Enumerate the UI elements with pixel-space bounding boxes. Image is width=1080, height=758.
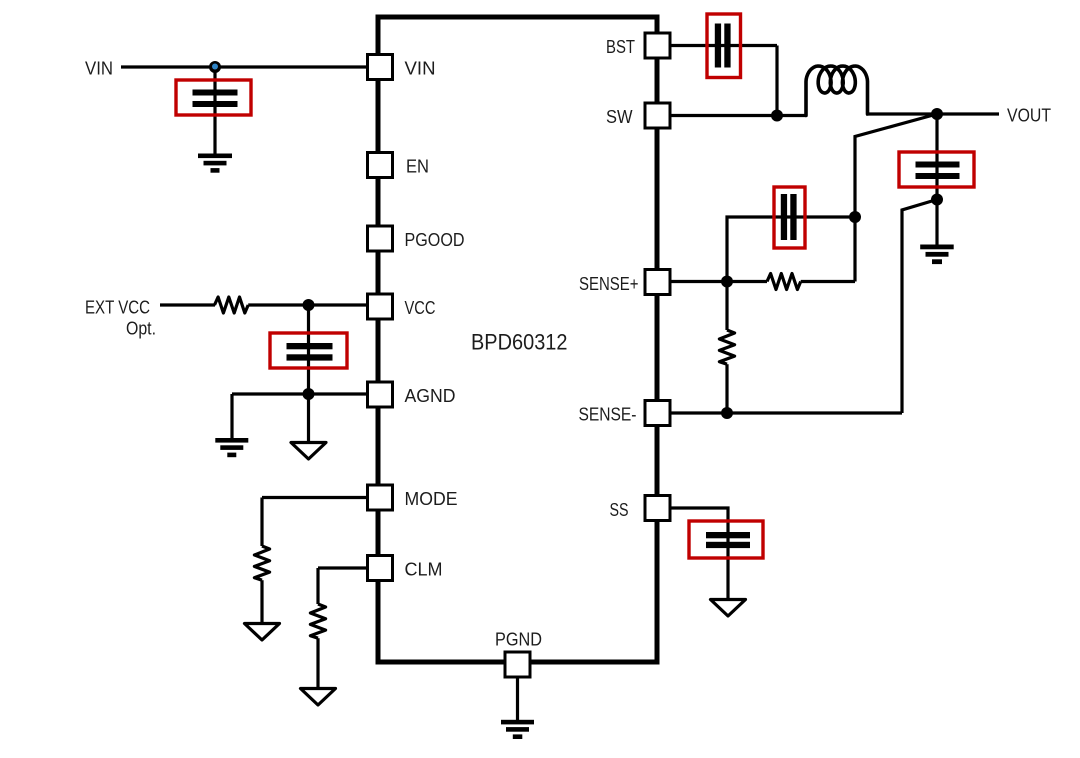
junction node AGND: [303, 388, 315, 400]
wire VIN node to capacitor C1: [213, 67, 216, 154]
junction node VCC: [303, 299, 315, 311]
wire SENSE+ node up to capacitor C5: [727, 217, 855, 282]
pin EN: [368, 153, 393, 178]
wire EXT VCC input to resistor R1: [160, 303, 215, 306]
wire MODE pin to resistor R2: [262, 498, 368, 547]
IC U1 BPD60312 body: [378, 17, 657, 662]
red highlight box around capacitor C4: [899, 152, 974, 187]
svg-text:EN: EN: [406, 155, 429, 176]
svg-text:PGOOD: PGOOD: [405, 229, 465, 250]
wire CLM pin to resistor R3: [318, 568, 368, 604]
ground (bar style) at AGND left: [215, 438, 248, 457]
resistor R2 (MODE pulldown): [254, 546, 269, 580]
pin SS: [645, 496, 670, 521]
capacitor C1 (VIN bypass) (horizontal plates): [193, 90, 238, 108]
junction node VOUT: [931, 108, 943, 120]
wire VCC node to capacitor C2: [307, 305, 310, 394]
wire SS pin to capacitor C6: [668, 508, 728, 600]
wire AGND node to triangle ground: [307, 394, 310, 443]
pin CLM: [368, 556, 393, 581]
capacitor C3 (bootstrap) (vertical plates): [715, 24, 731, 68]
pin SW: [645, 103, 670, 128]
svg-text:SENSE+: SENSE+: [579, 273, 639, 294]
ground (bar style) at output capacitor C4: [920, 245, 954, 265]
ground (open triangle) at SS capacitor C6: [711, 600, 746, 617]
wire VOUT node diagonal to sense network: [855, 114, 937, 282]
red highlight box around capacitor C6: [689, 521, 763, 558]
wire SENSE+ pin to resistor R4: [668, 280, 767, 283]
junction node SW: [771, 110, 783, 122]
capacitor C6 (soft-start) (horizontal plates): [706, 532, 750, 548]
wire output ground node to SENSE- return: [902, 200, 937, 414]
pin MODE: [368, 485, 393, 510]
pin SENSE+: [645, 270, 670, 295]
wire PGND pin to ground: [516, 676, 519, 720]
wire resistor R1 to VCC pin: [248, 303, 368, 306]
red highlight box around capacitor C1: [176, 80, 251, 115]
wire resistor R4 to vertical feed node: [801, 280, 855, 283]
svg-text:AGND: AGND: [405, 385, 456, 406]
svg-text:VOUT: VOUT: [1007, 104, 1051, 125]
resistor R4 (SENSE+ series): [767, 274, 801, 290]
wire BST pin to capacitor C3: [668, 44, 777, 47]
wire SENSE+ node to resistor R5: [725, 282, 728, 331]
capacitor C5 (sense filter) (vertical plates): [781, 194, 797, 240]
svg-text:EXT VCC: EXT VCC: [85, 296, 150, 317]
svg-text:VIN: VIN: [405, 57, 436, 78]
svg-text:PGND: PGND: [495, 628, 542, 649]
wire down to bar ground left of AGND: [230, 394, 233, 439]
svg-text:VIN: VIN: [85, 57, 113, 78]
pin PGOOD: [368, 226, 393, 251]
ground (open triangle) at AGND node: [291, 443, 326, 460]
junction node sense feed: [849, 211, 861, 223]
ground (bar style) at input capacitor C1: [198, 154, 232, 173]
blue marker on VIN input node: [212, 64, 218, 70]
wire VIN input to VIN pin: [121, 65, 368, 68]
svg-text:BST: BST: [606, 36, 635, 57]
capacitor C2 (VCC bypass) (horizontal plates): [287, 343, 333, 361]
wire VOUT node to capacitor C4: [935, 114, 938, 245]
wire resistor R2 to triangle ground: [260, 580, 263, 624]
resistor R3 (CLM pulldown): [310, 604, 325, 638]
svg-text:SENSE-: SENSE-: [579, 403, 637, 424]
wire SENSE- pin to return line: [668, 411, 902, 414]
red highlight box around capacitor C5: [774, 187, 805, 248]
wire resistor R3 to triangle ground: [316, 638, 319, 689]
inductor L1: [806, 66, 868, 116]
junction node VIN input: [209, 61, 221, 73]
svg-text:BPD60312: BPD60312: [471, 330, 568, 355]
svg-text:CLM: CLM: [405, 558, 443, 579]
wire SW pin to inductor L1: [668, 114, 806, 117]
pin VCC: [368, 294, 393, 319]
pin BST: [645, 33, 670, 58]
junction node SENSE-: [721, 407, 733, 419]
svg-text:Opt.: Opt.: [126, 318, 156, 339]
pin SENSE-: [645, 401, 670, 426]
ground (bar style) at PGND: [501, 720, 534, 739]
svg-text:VCC: VCC: [405, 297, 436, 318]
svg-text:SW: SW: [606, 106, 633, 127]
wire capacitor C3 down to SW node: [775, 46, 778, 116]
junction node output ground: [931, 194, 943, 206]
svg-text:MODE: MODE: [405, 488, 458, 509]
pin VIN: [368, 55, 393, 80]
wire AGND pin to left ground: [232, 392, 368, 395]
wire resistor R5 to SENSE- node: [725, 364, 728, 413]
resistor R1 (EXT VCC series): [215, 297, 249, 313]
svg-text:SS: SS: [610, 499, 629, 520]
pin AGND: [368, 382, 393, 407]
ground (open triangle) at CLM resistor R3: [301, 689, 336, 706]
pin PGND: [505, 652, 530, 677]
wire inductor L1 to VOUT: [866, 112, 999, 115]
red highlight box around capacitor C2: [270, 333, 347, 368]
ground (open triangle) at MODE resistor R2: [245, 624, 280, 641]
resistor R5 (SENSE+ to SENSE-): [719, 330, 734, 364]
capacitor C4 (output) (horizontal plates): [916, 162, 960, 180]
junction node SENSE+: [721, 276, 733, 288]
red highlight box around capacitor C3: [707, 14, 741, 78]
